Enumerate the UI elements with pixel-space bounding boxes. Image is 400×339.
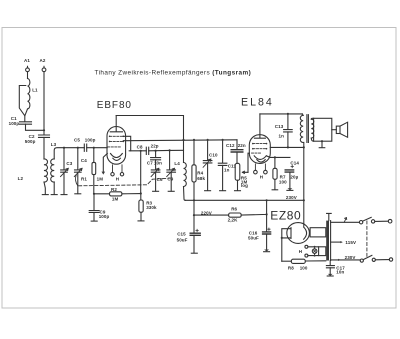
heater wires to transformer — [308, 247, 319, 256]
svg-text:100p: 100p — [99, 214, 110, 219]
EBF80 grid row 2 — [110, 140, 123, 142]
svg-text:1n: 1n — [224, 168, 230, 173]
chassis bar C4 — [75, 193, 81, 195]
chassis bar R5 — [235, 190, 241, 192]
svg-text:100p: 100p — [85, 138, 96, 143]
svg-text:2,2K: 2,2K — [228, 218, 239, 223]
tube EZ80 envelope — [287, 223, 310, 244]
svg-text:EL84: EL84 — [241, 96, 274, 108]
wire R3 top to detector line — [140, 151, 142, 194]
node R2/R3 junction — [140, 192, 142, 194]
svg-text:L2: L2 — [18, 176, 24, 181]
EZ80 cathode arc — [304, 227, 307, 239]
chassis C16 — [264, 250, 269, 252]
chassis C17 — [328, 274, 333, 276]
chassis bar L3 — [51, 194, 57, 196]
tube EL84 envelope — [249, 135, 270, 164]
svg-text:R8: R8 — [288, 265, 294, 270]
wire secondary to speaker — [311, 117, 313, 120]
node C9 tap — [169, 149, 171, 151]
svg-text:C15: C15 — [177, 231, 186, 236]
EL84 grid row 3 — [252, 152, 261, 154]
wire diode row to detector line — [123, 136, 130, 151]
node speaker ground — [321, 140, 323, 142]
svg-text:C10: C10 — [209, 152, 218, 157]
coil L2 — [44, 159, 48, 182]
svg-text:C13: C13 — [275, 124, 284, 129]
core top stub — [327, 213, 332, 220]
wire L3 top to grid line — [54, 148, 84, 159]
chassis bar C10 — [205, 190, 211, 192]
pilot lamp — [312, 249, 317, 254]
wire L1 bottom — [25, 109, 28, 122]
svg-text:100: 100 — [279, 179, 287, 184]
svg-text:Tihany Zweikreis-Reflexempfäng: Tihany Zweikreis-Reflexempfängers (Tungs… — [95, 69, 252, 76]
power transformer heater winding box — [319, 247, 326, 256]
svg-text:A2: A2 — [40, 58, 46, 63]
svg-text:C9: C9 — [167, 176, 173, 181]
EL84 cathode arcs — [254, 156, 266, 160]
svg-text:EZ80: EZ80 — [270, 208, 301, 222]
node C4 tap — [77, 147, 79, 149]
detector line — [129, 150, 146, 152]
coil L1 — [28, 79, 30, 109]
coil L3 — [51, 159, 55, 182]
svg-text:R2: R2 — [111, 187, 117, 192]
EBF80 grid row 1 (diode) — [110, 135, 123, 137]
svg-text:68k: 68k — [197, 176, 205, 181]
output transformer primary — [301, 114, 304, 115]
chassis bar speaker — [319, 147, 325, 149]
svg-text:C6: C6 — [157, 177, 163, 182]
chassis bar C9 — [168, 190, 174, 192]
chassis bar C11 — [220, 190, 226, 192]
EL84 heater pins — [254, 170, 258, 174]
switch pole 1 — [359, 221, 362, 224]
wire C2 to L2 — [43, 137, 45, 159]
wire C3 lead — [63, 148, 65, 170]
svg-text:22p: 22p — [151, 143, 159, 148]
wire L4 bottom to 230V rail — [184, 187, 186, 201]
wire EBF80 anode to L4 top — [116, 116, 183, 163]
chassis bar C9 — [91, 220, 97, 222]
node detector/R3 — [140, 150, 142, 152]
EL84 anode line — [260, 113, 302, 115]
svg-text:500p: 500p — [25, 139, 36, 144]
svg-text:1M: 1M — [97, 176, 104, 181]
chassis bar C15 — [191, 252, 197, 254]
svg-text:H: H — [116, 177, 119, 182]
svg-text:C7: C7 — [147, 160, 153, 165]
EZ80 heater pins — [305, 245, 308, 248]
svg-text:C3: C3 — [66, 161, 72, 166]
svg-text:R1: R1 — [81, 176, 87, 181]
R5 wiper to EL84 grid — [242, 171, 248, 173]
svg-text:330k: 330k — [146, 205, 157, 210]
chassis bar R3 — [138, 220, 144, 222]
wire L3 bottom to chassis — [53, 182, 55, 194]
chassis bar C3 — [61, 194, 67, 196]
EBF80 cathode arcs — [111, 154, 123, 158]
svg-text:C4: C4 — [81, 158, 87, 163]
output transformer core — [307, 115, 309, 143]
svg-text:1M: 1M — [112, 197, 119, 202]
svg-text:115V: 115V — [345, 240, 356, 245]
svg-text:100p: 100p — [9, 121, 20, 126]
speaker horn — [332, 129, 337, 131]
power transformer core — [326, 221, 329, 261]
dashed gang line — [79, 178, 171, 186]
EBF80 grid row 3 — [108, 146, 121, 148]
switch gang dashed link — [366, 221, 368, 258]
EL84 screen line — [270, 146, 304, 148]
node anode line crossing — [182, 139, 184, 141]
gang link C4 tail — [75, 175, 77, 186]
svg-text:C14: C14 — [290, 160, 299, 165]
EZ80 anode leads — [282, 229, 291, 262]
wire C3 bottom to chassis — [63, 172, 65, 194]
svg-text:230V: 230V — [286, 195, 297, 200]
node junction C1/A2 — [43, 129, 45, 131]
svg-text:C8: C8 — [137, 144, 143, 149]
node R7 tap — [274, 156, 276, 158]
node C3 tap — [63, 147, 65, 149]
svg-text:L4: L4 — [174, 161, 180, 166]
wire L2 bottom to chassis — [44, 182, 45, 194]
svg-text:L3: L3 — [51, 142, 57, 147]
switch pole 2 — [360, 259, 363, 262]
chassis bar R7 — [272, 189, 278, 191]
wire C4 bottom to chassis — [77, 172, 79, 193]
wire primary bottom down to rail — [303, 142, 305, 226]
output transformer secondary — [311, 119, 314, 138]
wire A1 down to L1 — [27, 72, 29, 79]
mains top tap wire — [331, 221, 360, 223]
svg-text:H: H — [299, 249, 302, 254]
speaker frame — [314, 118, 332, 141]
svg-text:R6: R6 — [231, 207, 237, 212]
svg-text:230V: 230V — [345, 255, 356, 260]
wire L1 tap to C1 — [19, 86, 26, 116]
svg-text:C12: C12 — [226, 143, 235, 148]
wire C4 lead — [77, 148, 79, 170]
wire C1 to A2 line — [26, 124, 45, 130]
svg-text:22n: 22n — [238, 143, 246, 148]
svg-text:1n: 1n — [279, 133, 285, 138]
EBF80 cathode lead to chassis arrow — [103, 153, 107, 171]
node C7 tap — [155, 150, 157, 152]
EL84 anode — [254, 114, 265, 138]
wire A2 down — [43, 72, 45, 135]
EZ80 anode bar — [290, 228, 292, 239]
svg-text:EBF80: EBF80 — [97, 100, 132, 111]
svg-text:H: H — [260, 175, 263, 180]
EBF80 heater pins — [111, 173, 114, 176]
EL84 cathode line to R7/C14 — [266, 156, 290, 158]
EL84 grid row 1 — [253, 143, 266, 145]
svg-text:50uF: 50uF — [248, 236, 259, 241]
svg-text:R4: R4 — [197, 171, 203, 176]
node R1/R2/C9 junction — [93, 193, 95, 195]
svg-text:C5: C5 — [74, 138, 80, 143]
wire EBF80 screen line to C12 — [123, 139, 237, 142]
wire C5 to tube grid — [87, 147, 108, 149]
EBF80 anode — [110, 116, 122, 132]
svg-text:10n: 10n — [336, 270, 344, 275]
EL84 grid row 2 — [253, 148, 266, 150]
svg-text:L1: L1 — [32, 88, 38, 93]
chassis C14 — [288, 188, 293, 190]
node R1 tap — [93, 147, 95, 149]
chassis bar C6 — [153, 190, 159, 192]
svg-text:log: log — [241, 183, 248, 188]
svg-text:A1: A1 — [24, 58, 30, 63]
power transformer HV winding box — [310, 228, 326, 237]
tube EBF80 envelope — [107, 127, 126, 165]
chassis bar L2 — [42, 194, 48, 196]
svg-text:100: 100 — [300, 265, 308, 270]
svg-text:50uF: 50uF — [177, 237, 188, 242]
svg-text:20µ: 20µ — [290, 174, 298, 179]
